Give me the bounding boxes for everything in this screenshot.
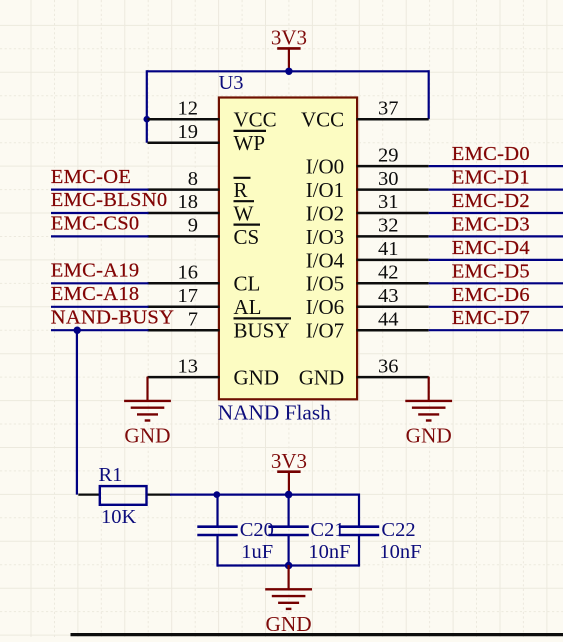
junction NAND-BUSY net <box>74 327 81 334</box>
svg-text:36: 36 <box>378 355 399 377</box>
pin 41 (I/O4) right <box>306 238 429 272</box>
svg-text:CL: CL <box>234 272 261 296</box>
svg-text:C20: C20 <box>240 519 274 541</box>
pin 36 (GND) right <box>299 355 429 389</box>
power port 3V3 (PWR2 (bottom)) <box>271 449 307 495</box>
svg-text:R: R <box>234 178 248 202</box>
pin 30 (I/O1) right <box>306 168 429 202</box>
svg-text:19: 19 <box>178 121 199 143</box>
wire net EMC-OE <box>51 189 149 191</box>
junction bottom GND <box>285 562 293 570</box>
svg-text:I/O1: I/O1 <box>306 178 345 202</box>
svg-text:EMC-D5: EMC-D5 <box>452 260 530 282</box>
svg-text:CS: CS <box>234 225 260 249</box>
pin 43 (I/O6) right <box>306 285 429 319</box>
power port 3V3 (PWR1 (top)) <box>271 26 307 72</box>
svg-text:EMC-D2: EMC-D2 <box>452 190 530 212</box>
wire right vertical to pin 37 <box>428 70 430 119</box>
svg-text:GND: GND <box>406 424 452 448</box>
svg-text:EMC-A18: EMC-A18 <box>51 283 140 305</box>
wire net EMC-A19 <box>51 282 149 284</box>
ground power port GND2 <box>405 377 452 448</box>
pin 18 (W) left <box>148 191 255 225</box>
wire net NAND-BUSY <box>51 329 149 331</box>
IC U3 (NAND Flash) body <box>219 98 357 400</box>
wire net EMC-D7 <box>429 329 563 331</box>
svg-text:C21: C21 <box>310 519 344 541</box>
svg-text:13: 13 <box>178 355 199 377</box>
capacitor C21 10nF <box>268 495 350 567</box>
pin 37 (VCC) right <box>301 97 429 131</box>
svg-text:NAND Flash: NAND Flash <box>218 401 331 425</box>
pin 32 (I/O3) right <box>306 215 429 249</box>
wire net EMC-D5 <box>429 282 563 284</box>
svg-text:VCC: VCC <box>234 108 277 132</box>
svg-text:30: 30 <box>378 168 399 190</box>
svg-text:EMC-D1: EMC-D1 <box>452 167 530 189</box>
svg-text:12: 12 <box>178 97 199 119</box>
junction 3V3/C21 <box>285 491 293 499</box>
resistor R1 <box>78 464 170 528</box>
pin 19 (WP) left <box>148 121 267 155</box>
wire top rail horizontal <box>147 70 429 72</box>
wire NAND-BUSY down to R1 <box>76 330 78 494</box>
wire net EMC-BLSN0 <box>51 212 149 214</box>
svg-text:BUSY: BUSY <box>234 319 290 343</box>
pin 42 (I/O5) right <box>306 262 429 296</box>
svg-text:10K: 10K <box>101 506 137 528</box>
ground power port GND3 <box>265 565 312 636</box>
svg-text:10nF: 10nF <box>379 541 421 563</box>
svg-text:AL: AL <box>234 295 262 319</box>
svg-text:EMC-A19: EMC-A19 <box>51 260 140 282</box>
svg-text:EMC-D7: EMC-D7 <box>452 307 530 329</box>
svg-text:43: 43 <box>378 285 399 307</box>
svg-text:EMC-D4: EMC-D4 <box>452 237 530 259</box>
svg-text:37: 37 <box>378 97 399 119</box>
pin 8 (R) left <box>148 168 251 202</box>
svg-text:3V3: 3V3 <box>271 26 307 50</box>
junction at pin 12 <box>144 116 151 123</box>
svg-text:W: W <box>234 201 254 225</box>
svg-text:17: 17 <box>178 285 199 307</box>
svg-text:EMC-D0: EMC-D0 <box>452 143 530 165</box>
svg-text:VCC: VCC <box>301 108 344 132</box>
svg-text:WP: WP <box>234 131 266 155</box>
svg-text:EMC-CS0: EMC-CS0 <box>51 213 140 235</box>
svg-text:U3: U3 <box>219 72 244 94</box>
wire C22 drop <box>358 494 360 528</box>
wire net EMC-D0 <box>429 165 563 167</box>
svg-text:I/O2: I/O2 <box>306 201 345 225</box>
svg-text:NAND-BUSY: NAND-BUSY <box>51 306 174 328</box>
svg-text:EMC-BLSN0: EMC-BLSN0 <box>51 189 168 211</box>
wire bottom cap rail <box>217 564 359 566</box>
svg-text:41: 41 <box>378 238 399 260</box>
pin 17 (AL) left <box>148 285 262 319</box>
wire net EMC-D3 <box>429 235 563 237</box>
wire net EMC-D2 <box>429 212 563 214</box>
svg-text:1uF: 1uF <box>241 541 273 563</box>
junction at 3V3/top rail <box>285 68 292 75</box>
pin 31 (I/O2) right <box>306 191 429 225</box>
wire bottom rail <box>170 494 359 496</box>
wire net EMC-CS0 <box>51 235 149 237</box>
ground power port GND1 <box>124 377 171 448</box>
svg-text:EMC-D6: EMC-D6 <box>452 284 530 306</box>
wire net EMC-D6 <box>429 306 563 308</box>
svg-text:42: 42 <box>378 262 399 284</box>
svg-text:I/O0: I/O0 <box>306 155 345 179</box>
sheet border bottom <box>71 633 563 636</box>
junction C20 <box>213 491 220 498</box>
svg-text:29: 29 <box>378 144 399 166</box>
pin 16 (CL) left <box>148 262 261 296</box>
svg-text:8: 8 <box>188 168 198 190</box>
svg-text:GND: GND <box>234 366 280 390</box>
pin 7 (BUSY) left <box>148 308 292 342</box>
svg-text:9: 9 <box>188 215 198 237</box>
svg-text:GND: GND <box>266 612 312 636</box>
svg-text:R1: R1 <box>99 464 123 486</box>
svg-text:GND: GND <box>299 366 345 390</box>
svg-text:I/O7: I/O7 <box>306 319 345 343</box>
svg-text:18: 18 <box>178 191 199 213</box>
svg-text:31: 31 <box>378 191 399 213</box>
svg-text:16: 16 <box>178 262 199 284</box>
wire net EMC-D1 <box>429 189 563 191</box>
wire left vertical to pins 12/19 <box>146 70 148 143</box>
svg-text:EMC-D3: EMC-D3 <box>452 213 530 235</box>
pin 12 (VCC) left <box>148 97 277 131</box>
capacitor C22 10nF <box>339 519 422 567</box>
pin 13 (GND) left <box>148 355 280 389</box>
svg-text:I/O4: I/O4 <box>306 248 345 272</box>
svg-text:C22: C22 <box>381 519 415 541</box>
svg-text:10nF: 10nF <box>308 541 350 563</box>
svg-text:I/O5: I/O5 <box>306 272 345 296</box>
svg-text:EMC-OE: EMC-OE <box>51 166 131 188</box>
svg-text:3V3: 3V3 <box>271 449 307 473</box>
wire net EMC-D4 <box>429 259 563 261</box>
svg-text:44: 44 <box>378 308 399 330</box>
capacitor C20 1uF <box>197 495 274 567</box>
svg-text:7: 7 <box>188 308 198 330</box>
svg-text:GND: GND <box>124 424 170 448</box>
svg-text:32: 32 <box>378 215 399 237</box>
svg-text:I/O6: I/O6 <box>306 295 345 319</box>
pin 9 (CS) left <box>148 215 261 249</box>
wire net EMC-A18 <box>51 306 149 308</box>
svg-text:I/O3: I/O3 <box>306 225 345 249</box>
pin 29 (I/O0) right <box>306 144 429 178</box>
pin 44 (I/O7) right <box>306 308 429 342</box>
